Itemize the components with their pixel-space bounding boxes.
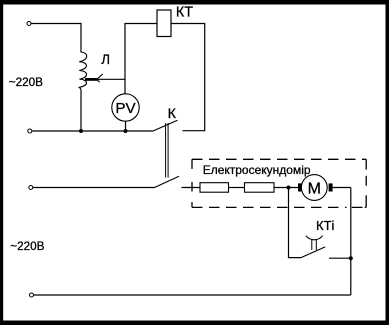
svg-text:М: М — [308, 181, 321, 198]
wire motor to right drop — [333, 187, 351, 189]
switch K linkage — [166, 123, 169, 178]
rail 2 — [32, 130, 153, 132]
wire wiper node to voltmeter — [124, 79, 126, 94]
dashed enclosure Електросекундомір — [192, 158, 366, 160]
terminal T3 (lower left) — [29, 186, 33, 190]
motor left brush — [298, 183, 302, 191]
КТі delay arc — [306, 236, 323, 240]
rail 3 — [33, 187, 155, 189]
svg-text:~220В: ~220В — [9, 76, 43, 89]
wire wiper node up to KT — [125, 24, 157, 80]
svg-text:КТі: КТі — [316, 218, 335, 233]
motor M — [301, 175, 327, 201]
relay coil KT — [157, 10, 171, 37]
wiper arrowhead upper barb — [97, 74, 103, 79]
svg-text:К: К — [168, 106, 177, 122]
wire into timer box — [182, 187, 201, 189]
svg-text:Л: Л — [101, 52, 110, 67]
terminal T4 (bottom left) — [30, 293, 34, 297]
wire PV to rail — [125, 121, 127, 131]
switch K top blade — [153, 120, 178, 131]
contact КТі fixed side — [329, 257, 351, 259]
wire T1 to autotransformer top — [31, 24, 81, 53]
junction coil/rail — [79, 129, 83, 133]
contact КТі blade — [301, 247, 325, 258]
terminal T1 (top left) — [27, 22, 31, 26]
svg-text:~220В: ~220В — [10, 240, 44, 253]
voltmeter PV — [112, 94, 139, 121]
КТі delay bars — [312, 240, 317, 250]
svg-text:Електросекундомір: Електросекундомір — [203, 163, 311, 177]
wire coil bottom to rail — [80, 90, 82, 131]
wiper arrow wire — [96, 78, 125, 80]
bottom return rail — [34, 294, 351, 296]
svg-text:КТ: КТ — [176, 4, 193, 20]
motor right brush — [329, 183, 333, 191]
wire R1 to R2 — [229, 187, 245, 189]
wire R2 to motor — [274, 187, 298, 189]
junction node motor branch — [287, 186, 291, 190]
right drop wire — [350, 188, 352, 296]
svg-text:PV: PV — [115, 100, 136, 117]
KTi branch drop wire — [289, 188, 302, 258]
wiper arrowhead lower barb — [97, 79, 100, 82]
resistor R2 — [245, 183, 275, 193]
junction on right drop — [349, 256, 353, 260]
terminal T2 (middle left) — [28, 129, 32, 133]
autotransformer Л coil — [79, 52, 86, 90]
wire KT right to switch fixed contact — [171, 24, 205, 131]
switch K bottom blade — [155, 176, 180, 187]
wiper arrowhead thick bar — [85, 78, 98, 81]
resistor R1 — [200, 183, 229, 193]
junction PV/rail — [124, 129, 128, 133]
